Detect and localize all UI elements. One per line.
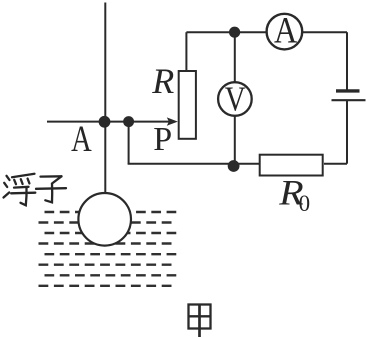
svg-text:0: 0 (299, 191, 311, 216)
svg-text:A: A (71, 119, 92, 160)
svg-text:R: R (151, 61, 174, 101)
svg-text:A: A (274, 10, 298, 51)
svg-text:P: P (153, 121, 172, 158)
svg-text:V: V (225, 81, 246, 119)
